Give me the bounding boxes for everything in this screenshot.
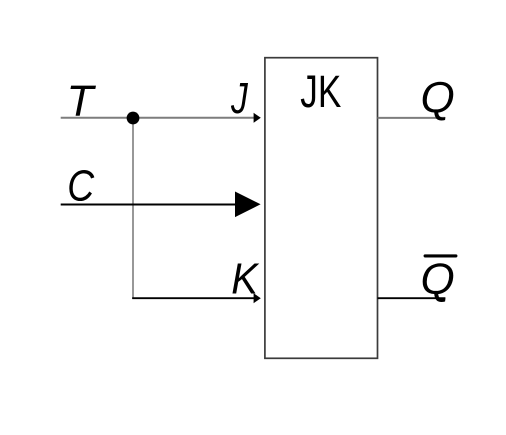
wire Q output [378, 117, 446, 119]
arrowhead at K input [254, 293, 261, 303]
wire vertical branch from node A down to K [132, 118, 134, 299]
svg-text:Q: Q [421, 74, 455, 123]
svg-text:J: J [230, 74, 248, 123]
clock arrowhead (large filled triangle) [235, 192, 261, 218]
svg-text:K: K [231, 255, 259, 304]
wire T input to J [61, 117, 256, 119]
wire C clock input [61, 204, 238, 206]
overline of Q-bar [425, 254, 456, 257]
svg-text:JK: JK [300, 66, 341, 117]
svg-text:C: C [67, 162, 95, 211]
flip-flop box U1 [265, 58, 378, 359]
wire K input [132, 297, 256, 299]
wire Q-bar output [378, 297, 446, 299]
svg-text:Q: Q [421, 255, 455, 304]
junction dot node A [127, 112, 140, 125]
arrowhead at J input [254, 113, 261, 123]
